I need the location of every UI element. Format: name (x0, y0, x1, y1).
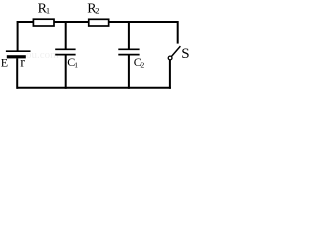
wire C2 branch upper (128, 21, 130, 49)
battery E r (6, 51, 31, 58)
wire battery to bottom (16, 58, 18, 88)
wire C1 branch lower (65, 55, 67, 89)
switch S (168, 46, 180, 60)
wire top (17, 21, 179, 23)
svg-text:S: S (181, 46, 189, 62)
svg-text:r: r (20, 55, 25, 70)
capacitor C1 (55, 49, 75, 54)
resistor R1 (33, 19, 54, 26)
wire C1 branch upper (65, 21, 67, 49)
wire C2 branch lower (128, 55, 130, 89)
svg-text:E: E (1, 55, 8, 69)
wire right lower (169, 60, 171, 89)
capacitor C2 (118, 49, 139, 54)
wire bottom (17, 87, 171, 89)
wire right upper (177, 21, 179, 44)
resistor R2 (89, 19, 109, 26)
svg-text:ou.com: ou.com (26, 49, 59, 61)
wire left (17, 21, 19, 52)
